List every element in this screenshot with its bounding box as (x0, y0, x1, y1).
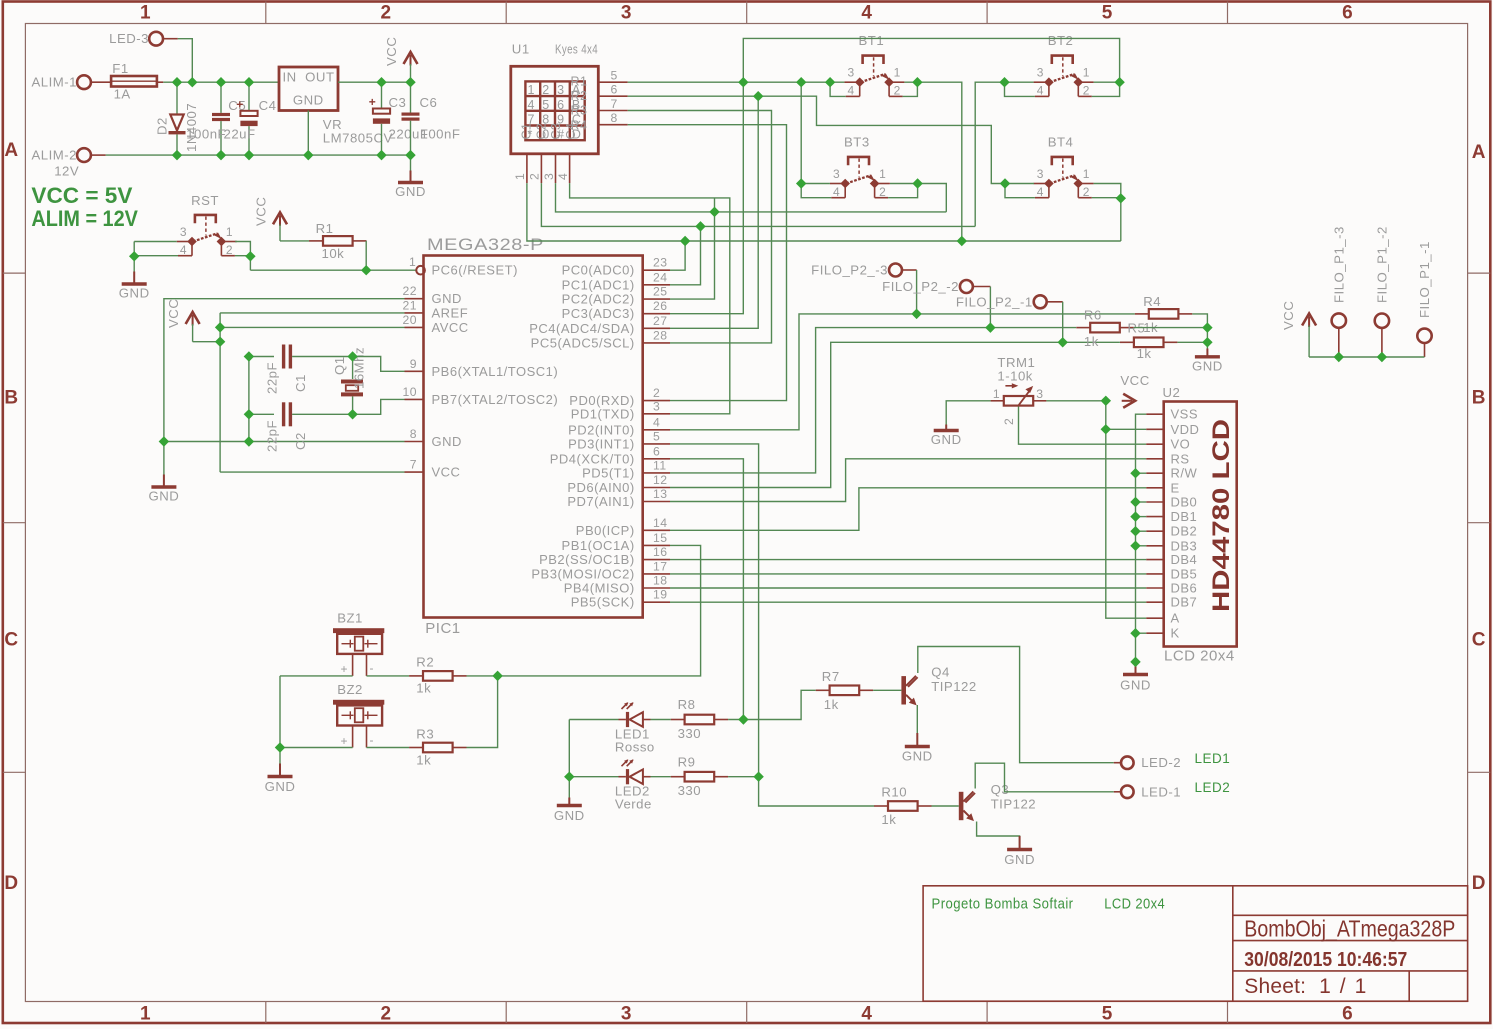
capacitor C4 22uF (248, 82, 250, 111)
capacitor C3 220uF (381, 82, 383, 108)
ground GND below LEDs (568, 798, 570, 806)
capacitor C6 100nF (410, 82, 412, 112)
svg-text:16: 16 (653, 545, 668, 559)
svg-text:BT1: BT1 (859, 33, 885, 48)
resistor R2 1k (409, 675, 423, 677)
svg-text:10k: 10k (322, 246, 345, 261)
mcu right pin 14 PB0(ICP) (643, 529, 670, 531)
svg-text:PB2(SS/OC1B): PB2(SS/OC1B) (539, 552, 635, 567)
lcd pin DB0 (1146, 501, 1164, 503)
wire VR OUT to VCC node (338, 81, 411, 83)
wire BZ1 plus to GND vertical (280, 675, 353, 677)
wire caps to GND vertical (248, 357, 250, 442)
svg-text:DB0: DB0 (1171, 495, 1198, 510)
svg-text:DB1: DB1 (1171, 509, 1198, 524)
svg-text:R3: R3 (416, 727, 434, 742)
svg-text:PD1(TXD): PD1(TXD) (571, 406, 635, 421)
wire keypad pin4 row to mcu pin3 (570, 183, 730, 414)
pushbutton BT3 (848, 157, 869, 165)
svg-text:Sheet:: Sheet: (1244, 975, 1306, 998)
svg-text:PC3(ADC3): PC3(ADC3) (562, 306, 635, 321)
svg-text:DB4: DB4 (1171, 552, 1198, 567)
svg-text:D: D (4, 873, 18, 894)
svg-text:VCC = 5V: VCC = 5V (31, 183, 132, 208)
wire R2 junction to mcu pin15 (467, 675, 498, 677)
svg-text:GND: GND (554, 808, 585, 823)
wire Q4 emitter to GND (916, 705, 918, 744)
svg-text:28: 28 (653, 328, 668, 342)
svg-text:GND: GND (931, 432, 962, 447)
lcd pin E (1146, 487, 1164, 489)
pushbutton BT4 (1052, 157, 1073, 165)
wire AVCC row (220, 326, 404, 328)
svg-text:5: 5 (653, 429, 660, 443)
wire LCD VCC net VDD A (1106, 401, 1146, 618)
svg-text:PC1(ADC1): PC1(ADC1) (562, 277, 635, 292)
svg-text:GND: GND (1004, 852, 1035, 867)
wire BT3 left feed (801, 183, 830, 185)
resistor R1 10k (280, 240, 309, 242)
svg-text:1: 1 (409, 255, 416, 269)
svg-text:C1: C1 (520, 123, 534, 140)
wire RS from mcu pin13 (670, 459, 1146, 502)
svg-text:R8: R8 (678, 697, 696, 712)
lcd pin DB6 (1146, 587, 1164, 589)
svg-text:1: 1 (1083, 167, 1090, 181)
svg-text:4: 4 (848, 84, 855, 98)
svg-text:7: 7 (611, 97, 618, 111)
wire TRM1 pin1 to GND (946, 401, 990, 425)
svg-text:Verde: Verde (615, 797, 652, 812)
wire R1 to MCU pin 1 net (365, 241, 367, 270)
svg-text:1: 1 (993, 387, 1000, 401)
wire FILO row2 to mcu pin11 (670, 328, 1076, 473)
wire R4 R5 R6 to GND (1192, 314, 1207, 349)
svg-text:GND: GND (395, 184, 426, 199)
svg-text:15: 15 (653, 531, 668, 545)
svg-text:6: 6 (1342, 3, 1353, 24)
junction dots power section (172, 77, 182, 87)
svg-text:GND: GND (1192, 358, 1223, 373)
lcd pin R/W (1146, 472, 1164, 474)
junction dots buzzer net (492, 671, 502, 681)
wire LED2 to R9 (651, 776, 671, 778)
power symbol VCC near LCD (1123, 394, 1135, 408)
resistor R4 1k (1135, 313, 1149, 315)
svg-text:C4: C4 (564, 123, 578, 140)
svg-text:VSS: VSS (1171, 407, 1199, 422)
wire mcu pin5 to LED2 net and R10 (670, 444, 759, 777)
lcd pin VDD (1146, 428, 1164, 430)
svg-text:B: B (4, 388, 18, 409)
capacitor C5 100nF (220, 82, 222, 113)
svg-text:6: 6 (611, 83, 618, 97)
svg-text:12: 12 (653, 473, 668, 487)
keypad bottom pins 1-4 (526, 154, 528, 183)
wire BT2 right (1094, 81, 1120, 83)
svg-text:PC5(ADC5/SCL): PC5(ADC5/SCL) (531, 335, 635, 350)
svg-text:PB1(OC1A): PB1(OC1A) (562, 538, 635, 553)
svg-text:C: C (4, 630, 18, 651)
mcu right pin 25 PC2(ADC2) (643, 298, 670, 300)
svg-text:1: 1 (226, 225, 233, 239)
svg-text:F1: F1 (112, 61, 128, 76)
svg-text:A: A (4, 140, 18, 161)
svg-text:LM7805CV: LM7805CV (323, 131, 393, 146)
svg-text:330: 330 (678, 783, 702, 798)
ground GND below Q4 (916, 733, 918, 747)
svg-text:Progeto Bomba Softair: Progeto Bomba Softair (932, 896, 1074, 913)
svg-text:ALIM = 12V: ALIM = 12V (31, 206, 138, 231)
svg-text:B: B (1472, 388, 1486, 409)
capacitor C1 22pF (249, 356, 274, 358)
resistor R10 1k (874, 805, 888, 807)
svg-text:2: 2 (380, 1004, 391, 1025)
svg-text:3: 3 (621, 3, 632, 24)
svg-text:HD44780 LCD: HD44780 LCD (1208, 419, 1235, 612)
lcd pin DB7 (1146, 601, 1164, 603)
svg-text:+: + (236, 98, 244, 112)
wire pin6 row to mcu pin27 (670, 96, 758, 328)
svg-text:1k: 1k (881, 812, 896, 827)
svg-text:FILO_P1_-2: FILO_P1_-2 (1375, 226, 1390, 303)
svg-text:PC0(ADC0): PC0(ADC0) (562, 263, 635, 278)
svg-text:14: 14 (653, 516, 668, 530)
svg-text:BZ1: BZ1 (337, 611, 363, 626)
svg-text:26: 26 (653, 299, 668, 313)
svg-text:1/1: 1/1 (1319, 975, 1375, 998)
title block (923, 886, 1468, 1001)
svg-text:Kyes 4x4: Kyes 4x4 (555, 42, 598, 57)
wire mcu pin6 to LED1 net and R7 (670, 459, 743, 720)
connector pad ALIM-1 (77, 75, 91, 89)
wire GND pin8 row (164, 441, 405, 443)
svg-text:FILO_P1_-3: FILO_P1_-3 (1332, 226, 1347, 303)
junction dots FILO_P1 (1334, 352, 1344, 362)
svg-text:18: 18 (653, 574, 668, 588)
wire keypad pin8 to mcu pin2 (628, 125, 787, 401)
svg-text:C6: C6 (420, 95, 438, 110)
led LED2 Verde (626, 769, 629, 784)
svg-text:3: 3 (848, 66, 855, 80)
mcu right pin 4 PD2(INT0) (643, 429, 670, 431)
svg-text:Q1: Q1 (332, 356, 347, 375)
mcu right pin 5 PD3(INT1) (643, 443, 670, 445)
svg-text:PD7(AIN1): PD7(AIN1) (567, 494, 634, 509)
svg-text:3: 3 (542, 173, 556, 180)
keypad right pins 5-8 (598, 81, 627, 83)
svg-text:1: 1 (1083, 66, 1090, 80)
lcd pin VO (1146, 443, 1164, 445)
wire E from mcu pin14 (670, 488, 1146, 531)
svg-text:DB6: DB6 (1171, 581, 1198, 596)
svg-text:FILO_P2_-3: FILO_P2_-3 (811, 263, 888, 278)
power symbol VCC far right (1302, 314, 1316, 326)
svg-text:10: 10 (402, 385, 417, 399)
svg-text:+: + (369, 95, 377, 109)
wire Q3 emitter to GND (977, 822, 1020, 847)
fuse F1 (111, 76, 157, 87)
svg-text:-: - (370, 733, 375, 747)
svg-text:4: 4 (833, 185, 840, 199)
svg-text:3: 3 (557, 83, 564, 97)
svg-text:RS: RS (1171, 451, 1190, 466)
svg-text:GND: GND (293, 93, 324, 108)
svg-text:Rosso: Rosso (615, 740, 655, 755)
svg-text:2: 2 (1002, 418, 1016, 425)
svg-text:12V: 12V (54, 164, 79, 179)
svg-text:ALIM-2: ALIM-2 (31, 148, 77, 163)
junction dots LCD nets (1101, 396, 1111, 406)
connector pad LED-3 (149, 32, 163, 46)
wire keypad pin7 to mcu pin28 (628, 111, 772, 343)
connector pad FILO_P2_-2 (960, 280, 973, 293)
svg-text:1k: 1k (1084, 334, 1099, 349)
svg-text:6: 6 (1342, 1004, 1353, 1025)
svg-text:DB3: DB3 (1171, 538, 1198, 553)
svg-text:20: 20 (402, 313, 417, 327)
svg-text:K: K (1171, 626, 1180, 641)
svg-text:2: 2 (527, 173, 541, 180)
svg-text:1k: 1k (416, 753, 431, 768)
svg-text:A: A (1171, 611, 1180, 626)
svg-text:3: 3 (1036, 387, 1043, 401)
connector pad FILO_P1_-2 (1375, 314, 1389, 328)
wire keypad pin3 row to mcu pin25 (556, 183, 947, 212)
svg-text:1k: 1k (824, 697, 839, 712)
svg-text:TIP122: TIP122 (931, 679, 977, 694)
junction dots FILO rows (911, 309, 921, 319)
svg-text:3: 3 (1037, 66, 1044, 80)
mcu right pin 23 PC0(ADC0) (643, 269, 670, 271)
wire DB6 from mcu pin18 (670, 587, 1146, 589)
svg-text:PB3(MOSI/OC2): PB3(MOSI/OC2) (531, 566, 634, 581)
svg-text:Q3: Q3 (991, 782, 1010, 797)
ground GND below LCD (1135, 662, 1137, 675)
svg-text:9: 9 (410, 357, 417, 371)
mcu right pin 24 PC1(ADC1) (643, 284, 670, 286)
svg-text:GND: GND (119, 286, 150, 301)
svg-text:LED-3: LED-3 (109, 31, 149, 46)
svg-text:FILO_P2_-2: FILO_P2_-2 (882, 279, 959, 294)
svg-text:C2: C2 (293, 432, 308, 450)
mcu right pin 12 PD6(AIN0) (643, 487, 670, 489)
mcu left pin 7 VCC (405, 471, 424, 473)
svg-text:1: 1 (140, 3, 151, 24)
svg-text:PD2(INT0): PD2(INT0) (568, 422, 635, 437)
wire BT3 column from pin5 row (800, 82, 802, 183)
wire stub keypad pin4 row to row3 (714, 198, 716, 212)
svg-text:22: 22 (402, 284, 417, 298)
svg-text:U2: U2 (1163, 385, 1181, 400)
wire BT3 right to keypad row3 (890, 184, 946, 212)
svg-text:3: 3 (653, 399, 660, 413)
svg-text:R2: R2 (416, 655, 434, 670)
wire TRM1 pin3 to VCC (1046, 400, 1105, 402)
svg-text:4: 4 (1037, 84, 1044, 98)
resistor R7 1k (816, 689, 830, 691)
svg-text:BT2: BT2 (1048, 33, 1074, 48)
svg-text:PIC1: PIC1 (425, 620, 460, 637)
wire pin5 row to mcu pin26 (670, 82, 743, 314)
svg-text:100nF: 100nF (421, 127, 461, 142)
lcd pin DB4 (1146, 559, 1164, 561)
lcd pin DB1 (1146, 516, 1164, 518)
svg-text:PD6(AIN0): PD6(AIN0) (567, 480, 634, 495)
resistor R3 1k (409, 747, 423, 749)
svg-text:24: 24 (653, 270, 668, 284)
svg-text:+: + (340, 662, 348, 676)
junction dots keypad/buttons (738, 77, 748, 87)
lcd pin K (1146, 632, 1164, 634)
mcu right pin 2 PD0(RXD) (643, 400, 670, 402)
ground GND below C6 (410, 155, 412, 170)
keypad matrix grid (525, 81, 584, 140)
svg-text:C: C (1472, 630, 1486, 651)
svg-text:7: 7 (410, 458, 417, 472)
svg-text:GND: GND (1120, 678, 1151, 693)
mcu left pin 22 GND (405, 298, 424, 300)
svg-text:19: 19 (653, 588, 668, 602)
svg-text:2: 2 (542, 83, 549, 97)
resistor R8 330 (671, 719, 685, 721)
svg-text:1A: 1A (114, 87, 131, 102)
svg-text:AVCC: AVCC (432, 320, 469, 335)
mcu right pin 13 PD7(AIN1) (643, 501, 670, 503)
svg-text:1-10k: 1-10k (997, 369, 1033, 384)
svg-text:1k: 1k (1137, 346, 1152, 361)
lcd pin DB2 (1146, 530, 1164, 532)
connector pad FILO_P2_-1 (1034, 295, 1047, 308)
mcu right pin 15 PB1(OC1A) (643, 544, 670, 546)
wire LCD GND net VSS RW DB0-DB3 K (1136, 414, 1147, 662)
svg-text:BZ2: BZ2 (337, 682, 363, 697)
wire C1 to XTAL1 pin 9 (353, 357, 405, 372)
svg-text:R9: R9 (678, 755, 696, 770)
svg-text:17: 17 (653, 559, 668, 573)
connector pad FILO_P2_-3 (889, 264, 902, 277)
svg-text:C4: C4 (259, 98, 277, 113)
wire VCC pin7 row (220, 471, 404, 473)
svg-text:A: A (1472, 142, 1486, 163)
svg-text:PD3(INT1): PD3(INT1) (568, 436, 635, 451)
svg-text:PB5(SCK): PB5(SCK) (571, 595, 635, 610)
svg-text:23: 23 (653, 256, 668, 270)
svg-text:2: 2 (380, 3, 391, 24)
mcu right pin 3 PD1(TXD) (643, 413, 670, 415)
mcu left pin 8 GND (405, 441, 424, 443)
svg-text:4: 4 (861, 3, 872, 24)
svg-text:R7: R7 (822, 669, 840, 684)
connector pad LED-2 (1121, 756, 1134, 769)
svg-text:DB7: DB7 (1171, 595, 1198, 610)
wire AREF row (220, 312, 404, 314)
voltage regulator VR LM7805CV (279, 67, 338, 111)
svg-text:1: 1 (140, 1004, 151, 1025)
mcu pin 1 PC6/RESET with bubble (416, 266, 425, 275)
wire BT1 right to keypad row1 (904, 82, 961, 241)
svg-text:6: 6 (653, 444, 660, 458)
mcu left pin 10 PB7(XTAL2/TOSC2) (405, 398, 424, 400)
keypad U1 Kyes 4x4 body (511, 66, 599, 154)
svg-text:1: 1 (513, 173, 527, 180)
svg-text:R2: R2 (571, 89, 588, 103)
svg-text:22uF: 22uF (224, 127, 256, 142)
power symbol VCC above R1 (273, 212, 287, 224)
mcu right pin 18 PB4(MISO) (643, 587, 670, 589)
svg-text:PB4(MISO): PB4(MISO) (564, 581, 635, 596)
ground GND below RST (133, 256, 135, 271)
svg-text:R/W: R/W (1171, 466, 1198, 481)
wire BT4 right to keypad row1 end (1094, 184, 1121, 242)
svg-text:PC4(ADC4/SDA): PC4(ADC4/SDA) (529, 321, 634, 336)
svg-text:8: 8 (410, 427, 417, 441)
svg-text:13: 13 (653, 487, 668, 501)
power symbol VCC left of MCU (186, 312, 200, 324)
svg-text:5: 5 (611, 69, 618, 83)
resistor R9 330 (671, 776, 685, 778)
svg-text:22pF: 22pF (265, 362, 280, 394)
svg-text:R1: R1 (571, 74, 588, 88)
mcu left pin 20 AVCC (405, 326, 424, 328)
mcu right pin 19 PB5(SCK) (643, 601, 670, 603)
svg-text:PB7(XTAL2/TOSC2): PB7(XTAL2/TOSC2) (432, 392, 559, 407)
svg-text:VCC: VCC (1281, 301, 1296, 330)
ground GND below Q3 (1019, 836, 1021, 850)
svg-text:22pF: 22pF (265, 420, 280, 452)
svg-text:GND: GND (265, 779, 296, 794)
svg-text:R6: R6 (1084, 308, 1102, 323)
wire R7 to Q4 base (873, 689, 901, 691)
junction dots led nets (738, 714, 748, 724)
svg-text:ALIM-1: ALIM-1 (31, 75, 77, 90)
svg-text:U1: U1 (512, 42, 530, 57)
lcd pin A (1146, 617, 1164, 619)
wire R10 to Q3 base (932, 805, 959, 807)
svg-text:VCC: VCC (384, 37, 399, 66)
wire LED1 to R8 (651, 719, 671, 721)
svg-text:330: 330 (678, 726, 702, 741)
wire ALIM-2 net (106, 154, 411, 156)
svg-text:1: 1 (894, 66, 901, 80)
wire Q3 collector to LED-1 pad (975, 763, 1114, 792)
transistor Q4 TIP122 (901, 676, 906, 704)
wire BT2 left feed (975, 82, 1033, 226)
svg-text:LED-1: LED-1 (1141, 784, 1181, 799)
resistor R5 1k (1120, 341, 1134, 343)
svg-text:PD4(XCK/T0): PD4(XCK/T0) (550, 451, 635, 466)
mcu right pin 26 PC3(ADC3) (643, 313, 670, 315)
svg-text:4: 4 (653, 415, 660, 429)
led LED1 Rosso (626, 712, 629, 727)
wire BZ2 minus to R3 (367, 747, 410, 749)
wire LED cathodes to GND (568, 720, 570, 798)
wire Q4 collector to LED-2 pad (918, 647, 1114, 763)
svg-text:D: D (1472, 873, 1486, 894)
svg-text:2: 2 (653, 386, 660, 400)
wire BZ1 minus to R2 (367, 675, 410, 677)
svg-text:21: 21 (402, 298, 417, 312)
wire keypad pin5 row (628, 81, 845, 83)
wire DB5 from mcu pin17 (670, 573, 1146, 575)
svg-text:C3: C3 (549, 123, 563, 140)
svg-text:4: 4 (1037, 185, 1044, 199)
wire LED-3 to ALIM-1 net (178, 39, 193, 82)
svg-text:C3: C3 (389, 95, 407, 110)
junction dots xtal section (215, 322, 225, 332)
connector pad ALIM-2 (77, 148, 91, 162)
wire VCC to AVCC AREF VCC pins (193, 341, 221, 343)
